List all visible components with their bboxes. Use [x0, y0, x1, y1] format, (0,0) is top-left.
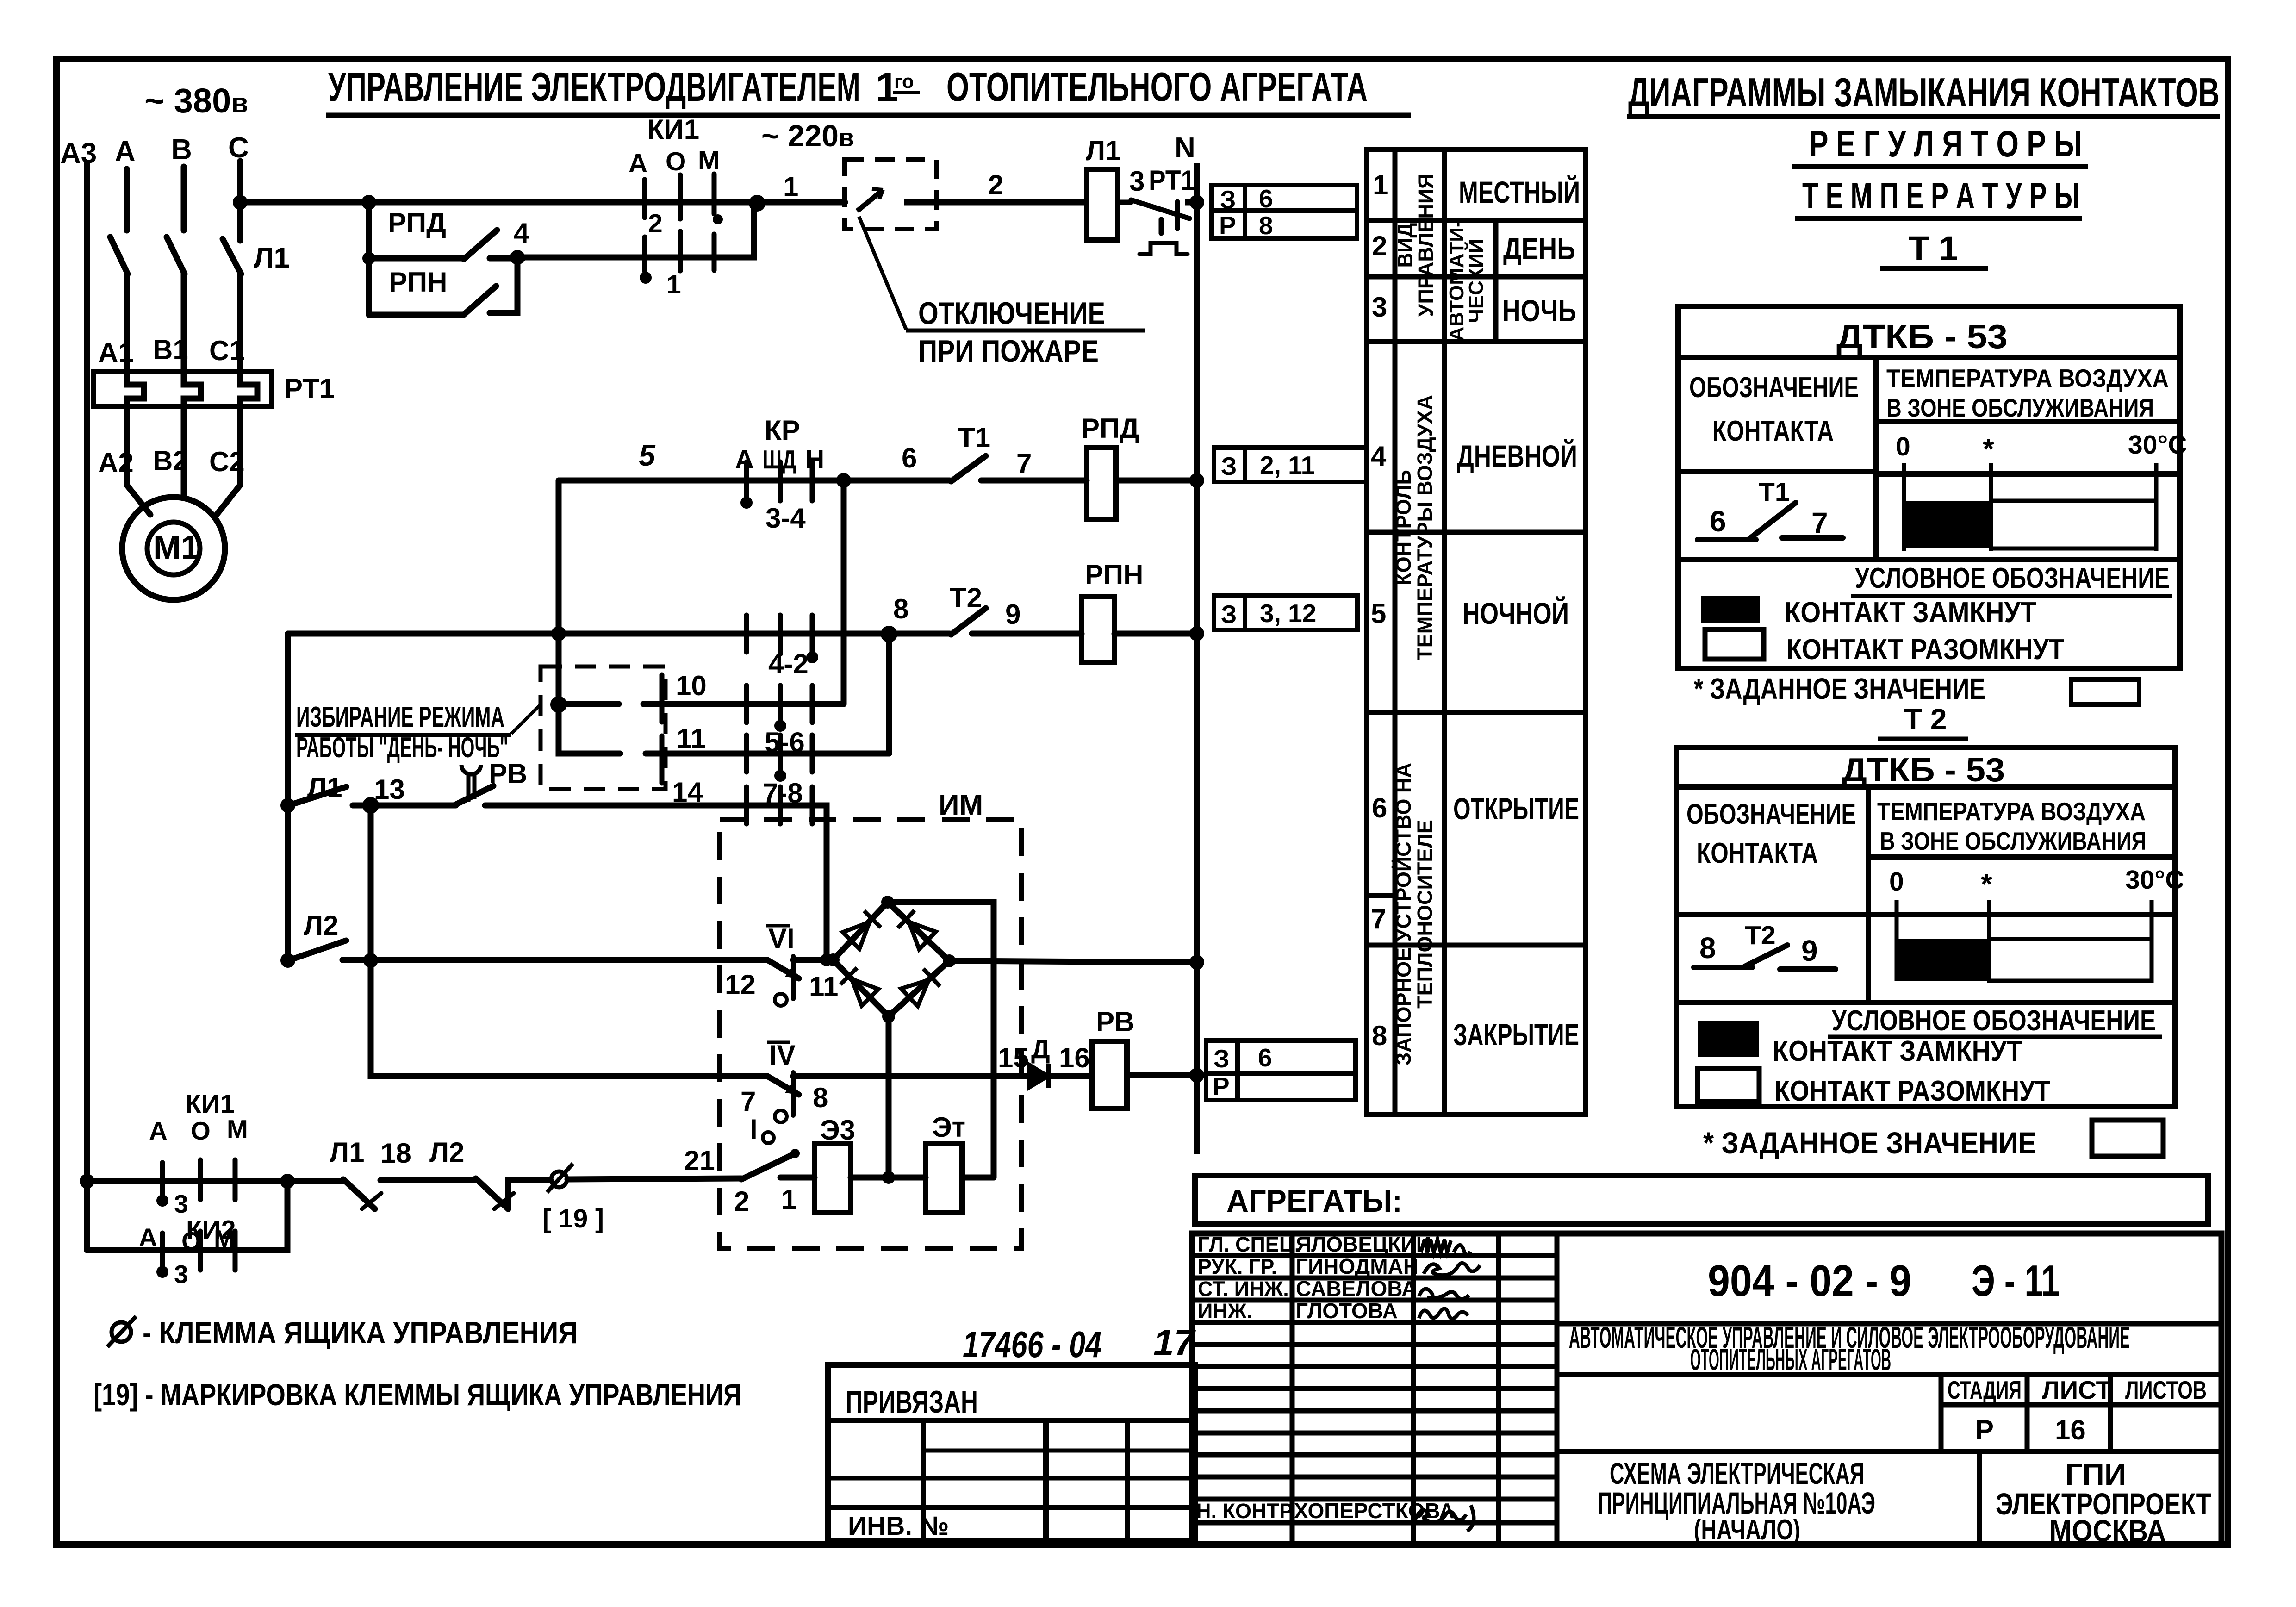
- svg-text:IV: IV: [769, 1040, 796, 1071]
- svg-text:КИ1: КИ1: [647, 114, 699, 145]
- svg-text:12: 12: [725, 969, 756, 1000]
- svg-text:А3: А3: [60, 137, 97, 169]
- svg-text:15: 15: [998, 1042, 1029, 1073]
- svg-text:2: 2: [734, 1186, 749, 1217]
- wire 13: [353, 803, 456, 809]
- bridge arm bottom-left: [833, 960, 889, 1016]
- marker dot 4-2: [806, 651, 818, 663]
- marker dot 10 row: [774, 720, 786, 732]
- wire: РПД to node 4: [490, 255, 523, 262]
- svg-text:Т1: Т1: [1759, 477, 1790, 507]
- svg-text:ИЗБИРАНИЕ РЕЖИМА: ИЗБИРАНИЕ РЕЖИМА: [296, 701, 504, 733]
- svg-text:17466 - 04: 17466 - 04: [963, 1324, 1101, 1365]
- svg-text:8: 8: [1699, 931, 1716, 965]
- svg-text:СТ. ИНЖ.: СТ. ИНЖ.: [1198, 1277, 1289, 1301]
- node bridge bottom: [882, 1010, 895, 1023]
- svg-text:VI: VI: [768, 923, 795, 954]
- contact Л2 (NO aux): [292, 941, 346, 959]
- svg-text:10: 10: [676, 670, 707, 701]
- svg-text:ДИАГРАММЫ ЗАМЫКАНИЯ КОНТАКТОВ: ДИАГРАММЫ ЗАМЫКАНИЯ КОНТАКТОВ: [1628, 69, 2220, 115]
- contact РПД (NO): [464, 230, 497, 259]
- svg-text:21: 21: [684, 1145, 715, 1176]
- contact Т2 (NO): [951, 608, 986, 635]
- svg-text:1: 1: [1373, 169, 1388, 200]
- svg-text:9: 9: [1801, 934, 1818, 967]
- svg-text:3: 3: [174, 1190, 188, 1218]
- phase C line upper: [237, 161, 243, 241]
- legend open box: [1705, 629, 1764, 659]
- svg-text:ДЕНЬ: ДЕНЬ: [1503, 231, 1575, 266]
- КР poles at row 14: [747, 787, 812, 824]
- node branch РПН: [362, 252, 375, 265]
- coil РПД: [1087, 448, 1116, 519]
- svg-text:7-8: 7-8: [763, 778, 803, 809]
- title: УПРАВЛЕНИЕ ЭЛЕКТРОДВИГАТЕЛЕМ 1го ОТОПИТЕЛЬНОГО АГРЕГАТА: [326, 64, 1411, 115]
- svg-text:ТЕМПЕРАТУРЫ ВОЗДУХА: ТЕМПЕРАТУРЫ ВОЗДУХА: [1413, 395, 1437, 660]
- phase A line to РТ1: [124, 273, 130, 376]
- svg-text:(НАЧАЛО): (НАЧАЛО): [1694, 1514, 1800, 1546]
- svg-text:30°С: 30°С: [2125, 865, 2184, 895]
- riser from T2 node: [886, 634, 892, 754]
- svg-text:СТАДИЯ: СТАДИЯ: [1948, 1376, 2022, 1404]
- node Т2: [881, 626, 897, 642]
- svg-text:ГЛ. СПЕЦ.: ГЛ. СПЕЦ.: [1198, 1233, 1300, 1256]
- svg-text:М: М: [698, 146, 720, 175]
- svg-text:ОТОПИТЕЛЬНЫХ АГРЕГАТОВ: ОТОПИТЕЛЬНЫХ АГРЕГАТОВ: [1690, 1342, 1891, 1377]
- svg-text:17: 17: [1153, 1322, 1196, 1363]
- coil РПН: [1082, 597, 1114, 662]
- bar closed (filled): [1904, 501, 1991, 548]
- wire: IV fixed to diode Д: [793, 1073, 1028, 1079]
- coil Э3: [815, 1144, 851, 1213]
- svg-text:Л1: Л1: [307, 772, 342, 803]
- РТ1 heater element phase B: [184, 372, 201, 406]
- VI pivot circle: [775, 994, 787, 1006]
- svg-text:ОТКЛЮЧЕНИЕ: ОТКЛЮЧЕНИЕ: [918, 296, 1105, 331]
- svg-text:ОБОЗНАЧЕНИЕ: ОБОЗНАЧЕНИЕ: [1689, 372, 1859, 404]
- ИМ dashed box: [720, 819, 1021, 1249]
- svg-text:1: 1: [666, 270, 681, 299]
- svg-text:В ЗОНЕ ОБСЛУЖИВАНИЯ: В ЗОНЕ ОБСЛУЖИВАНИЯ: [1880, 827, 2147, 855]
- contact РПН (NO): [464, 286, 496, 315]
- svg-text:ГИНОДМАН: ГИНОДМАН: [1296, 1254, 1419, 1278]
- contactor Л1 main contact phase A: [110, 237, 128, 274]
- svg-text:А: А: [115, 136, 136, 168]
- wire: Эт to right drop: [962, 1175, 994, 1181]
- phase B line to motor: [181, 406, 187, 498]
- wire: Э3 to Эт: [851, 1175, 926, 1181]
- svg-text:РПД: РПД: [1081, 413, 1139, 444]
- svg-text:САВЕЛОВА: САВЕЛОВА: [1296, 1277, 1417, 1301]
- РВ time-delay symbol: [461, 765, 481, 802]
- svg-text:В1: В1: [153, 334, 188, 365]
- terminal symbol in note: [112, 1322, 131, 1342]
- svg-text:ДТКБ - 53: ДТКБ - 53: [1842, 752, 2005, 789]
- node bridge top: [881, 896, 894, 909]
- svg-text:2, 11: 2, 11: [1260, 451, 1315, 480]
- svg-text:Д: Д: [1031, 1034, 1050, 1064]
- marker dot КИ1: [156, 1195, 168, 1207]
- svg-text:КОНТРОЛЬ: КОНТРОЛЬ: [1392, 470, 1415, 585]
- svg-text:Р Е Г У Л Я Т О Р Ы: Р Е Г У Л Я Т О Р Ы: [1809, 123, 2082, 164]
- legend open box: [1698, 1069, 1759, 1102]
- wire: phase C tap to КИ1: [240, 199, 845, 206]
- svg-text:С1: С1: [209, 335, 245, 366]
- wire: Л2 to VI contact: [342, 957, 767, 963]
- svg-text:6: 6: [1710, 505, 1726, 538]
- svg-text:Л1: Л1: [330, 1137, 364, 1168]
- svg-text:Э - 11: Э - 11: [1972, 1256, 2060, 1306]
- callout leader to selector box: [511, 704, 541, 734]
- svg-text:Л2: Л2: [429, 1137, 464, 1168]
- svg-text:Р: Р: [1975, 1414, 1994, 1445]
- legend filled box: [1701, 596, 1760, 623]
- contact Т1 (NO): [951, 456, 986, 481]
- node КИ1 out: [749, 195, 765, 212]
- diode D3 (bottom-left arm): [840, 968, 878, 1006]
- node 13: [362, 797, 379, 814]
- svg-text:3: 3: [1372, 292, 1387, 323]
- svg-text:СХЕМА ЭЛЕКТРИЧЕСКАЯ: СХЕМА ЭЛЕКТРИЧЕСКАЯ: [1610, 1456, 1864, 1490]
- motor M1: [122, 497, 225, 600]
- coil Эт: [926, 1144, 962, 1213]
- svg-text:Р: Р: [1213, 1072, 1230, 1101]
- svg-text:3: 3: [1129, 166, 1145, 197]
- node РТ1-N: [1189, 195, 1204, 210]
- svg-text:С: С: [228, 132, 249, 164]
- svg-text:2: 2: [1372, 230, 1387, 262]
- diode D2 (top-right arm): [898, 910, 936, 949]
- node bridge AC left: [820, 953, 833, 966]
- svg-text:А: А: [139, 1223, 157, 1252]
- svg-text:ПРИ ПОЖАРЕ: ПРИ ПОЖАРЕ: [918, 334, 1099, 369]
- wire: node 4 to КИ1 lower row: [517, 204, 754, 257]
- wire: РПН branch: [369, 312, 463, 318]
- contact VI (reversing, NO with pivot): [767, 960, 799, 978]
- svg-text:УПРАВЛЕНИЯ: УПРАВЛЕНИЯ: [1414, 174, 1437, 317]
- riser node13 to IV row: [371, 805, 767, 1076]
- svg-text:ТЕПЛОНОСИТЕЛЕ: ТЕПЛОНОСИТЕЛЕ: [1413, 820, 1437, 1009]
- svg-text:РАБОТЫ "ДЕНЬ- НОЧЬ": РАБОТЫ "ДЕНЬ- НОЧЬ": [296, 732, 508, 764]
- wire: to Л1 nc contact: [287, 1178, 343, 1184]
- bar closed (filled): [1897, 939, 1989, 981]
- svg-text:*: *: [1981, 867, 1992, 901]
- wire: bridge right AC to N: [949, 961, 1197, 962]
- svg-text:ОБОЗНАЧЕНИЕ: ОБОЗНАЧЕНИЕ: [1686, 798, 1856, 830]
- svg-text:3-4: 3-4: [765, 503, 806, 534]
- wire: VI fixed to bridge: [793, 957, 833, 963]
- marker dot КИ2: [156, 1266, 168, 1278]
- svg-text:ЛИСТ: ЛИСТ: [2042, 1376, 2111, 1404]
- contact Л1 (NC interlock): [343, 1179, 375, 1209]
- svg-text:РТ1: РТ1: [284, 373, 335, 404]
- node 4: [510, 250, 525, 265]
- bridge arm top-right: [888, 902, 949, 961]
- svg-text:5-6: 5-6: [765, 727, 805, 758]
- node Л1 aux: [280, 798, 295, 813]
- svg-text:ЧЕСКИЙ: ЧЕСКИЙ: [1464, 239, 1487, 323]
- svg-text:М1: М1: [153, 529, 199, 566]
- svg-text:4-2: 4-2: [768, 648, 809, 679]
- svg-text:Т 2: Т 2: [1904, 703, 1947, 736]
- svg-text:НОЧЬ: НОЧЬ: [1502, 293, 1576, 328]
- wire: riser x1207 down: [556, 480, 562, 704]
- svg-text:УПРАВЛЕНИЕ ЭЛЕКТРОДВИГАТЕЛЕМ: УПРАВЛЕНИЕ ЭЛЕКТРОДВИГАТЕЛЕМ: [328, 64, 860, 110]
- svg-text:0: 0: [1889, 867, 1904, 897]
- svg-text:5: 5: [1371, 598, 1386, 629]
- wire: terminal to I contact: [567, 1178, 741, 1179]
- svg-text:ИНЖ.: ИНЖ.: [1198, 1299, 1252, 1323]
- marker dot 3-4: [740, 497, 753, 509]
- svg-text:ИНВ. №: ИНВ. №: [848, 1511, 949, 1541]
- svg-text:ТЕМПЕРАТУРА ВОЗДУХА: ТЕМПЕРАТУРА ВОЗДУХА: [1877, 797, 2146, 826]
- heading: ДИАГРАММЫ ЗАМЫКАНИЯ КОНТАКТОВ: [1627, 69, 2220, 117]
- svg-text:1: 1: [783, 171, 798, 202]
- svg-text:16: 16: [2055, 1414, 2086, 1445]
- svg-text:Т 1: Т 1: [1909, 229, 1958, 268]
- bar open (outline): [1989, 939, 2152, 981]
- svg-text:4: 4: [514, 218, 529, 249]
- svg-text:Т2: Т2: [950, 582, 982, 613]
- svg-text:КР: КР: [765, 415, 800, 446]
- wire: РПД/РПН branch drop: [366, 202, 372, 315]
- svg-text:РПН: РПН: [389, 267, 447, 298]
- svg-text:З: З: [1220, 185, 1236, 214]
- fire disconnect dashed box: [845, 160, 936, 229]
- contactor Л1 main contact phase B: [167, 237, 185, 274]
- svg-text:30°С: 30°С: [2128, 430, 2187, 460]
- svg-text:Э3: Э3: [820, 1115, 855, 1146]
- bridge arm top-left: [833, 902, 888, 960]
- svg-text:Н: Н: [805, 445, 824, 474]
- svg-text:УСЛОВНОЕ ОБОЗНАЧЕНИЕ: УСЛОВНОЕ ОБОЗНАЧЕНИЕ: [1832, 1005, 2156, 1037]
- contactor Л1 main contact phase C: [223, 239, 241, 274]
- wire: T1 node to contact: [844, 478, 950, 484]
- arrow dot I blade: [790, 1149, 800, 1158]
- signatures: [1415, 1240, 1480, 1531]
- wire: I fixed to Э3: [780, 1175, 815, 1181]
- svg-text:ДНЕВНОЙ: ДНЕВНОЙ: [1457, 438, 1577, 473]
- wire row 10: [559, 701, 844, 707]
- svg-text:О: О: [191, 1116, 211, 1145]
- svg-text:9: 9: [1005, 599, 1020, 630]
- wire: РПН riser to node 4: [490, 258, 517, 313]
- svg-text:5: 5: [639, 439, 656, 472]
- wire: left drop to Л1 row: [285, 634, 291, 805]
- svg-text:УСЛОВНОЕ ОБОЗНАЧЕНИЕ: УСЛОВНОЕ ОБОЗНАЧЕНИЕ: [1855, 562, 2170, 594]
- svg-text:11: 11: [809, 971, 838, 1002]
- svg-text:З: З: [1221, 600, 1237, 629]
- svg-text:КОНТАКТА: КОНТАКТА: [1697, 837, 1818, 869]
- contact table З6/Р8: [1212, 185, 1357, 238]
- svg-text:[ 19 ]: [ 19 ]: [542, 1204, 604, 1233]
- svg-text:В ЗОНЕ ОБСЛУЖИВАНИЯ: В ЗОНЕ ОБСЛУЖИВАНИЯ: [1886, 393, 2154, 422]
- svg-text:РПН: РПН: [1085, 559, 1143, 590]
- svg-text:КОНТАКТ РАЗОМКНУТ: КОНТАКТ РАЗОМКНУТ: [1786, 634, 2064, 666]
- phase C line to РТ1: [237, 273, 243, 376]
- contact table З6/Р (РВ): [1206, 1040, 1356, 1100]
- КИ1/КИ2 connecting drop: [87, 1181, 287, 1250]
- svg-text:~ 220в: ~ 220в: [761, 118, 854, 153]
- svg-text:КОНТАКТА: КОНТАКТА: [1712, 415, 1834, 447]
- wire 18: [380, 1177, 476, 1183]
- contact I (selector): [741, 1153, 795, 1179]
- svg-text:2: 2: [988, 169, 1003, 200]
- svg-text:НОЧНОЙ: НОЧНОЙ: [1462, 596, 1569, 630]
- svg-text:КОНТАКТ ЗАМКНУТ: КОНТАКТ ЗАМКНУТ: [1773, 1035, 2022, 1067]
- svg-text:А: А: [149, 1116, 168, 1145]
- node C tap: [233, 195, 248, 210]
- scale ticks: [1897, 900, 2152, 981]
- svg-text:1: 1: [781, 1184, 796, 1215]
- svg-text:N: N: [1175, 132, 1195, 164]
- svg-text:4: 4: [1371, 441, 1387, 472]
- contact Л1 (NO aux): [292, 787, 346, 804]
- svg-text:Л2: Л2: [304, 910, 338, 941]
- terminal clip symbol: [551, 1171, 567, 1187]
- svg-text:ХОПЕРСТКОВА: ХОПЕРСТКОВА: [1294, 1499, 1455, 1523]
- node riser T2 crossing: [551, 626, 566, 641]
- callout leader (отключение при пожаре): [859, 217, 906, 330]
- svg-text:ЗАКРЫТИЕ: ЗАКРЫТИЕ: [1453, 1017, 1579, 1052]
- svg-text:В2: В2: [153, 445, 188, 476]
- N bus: [1194, 163, 1200, 1154]
- svg-text:М: М: [227, 1115, 248, 1143]
- svg-text:АГРЕГАТЫ:: АГРЕГАТЫ:: [1226, 1183, 1402, 1219]
- wire 5 riser: [559, 478, 844, 484]
- svg-text:ГЛОТОВА: ГЛОТОВА: [1296, 1299, 1398, 1323]
- svg-text:Р: Р: [1219, 211, 1236, 240]
- phase A line to motor: [127, 406, 150, 515]
- svg-text:Л1: Л1: [254, 242, 290, 274]
- svg-text:РВ: РВ: [1096, 1006, 1134, 1037]
- svg-text:В: В: [171, 134, 192, 166]
- svg-text:ЛИСТОВ: ЛИСТОВ: [2125, 1376, 2207, 1404]
- arrow head VI blade: [785, 965, 799, 978]
- bus A3 (left vertical supply bus): [84, 163, 90, 1250]
- svg-text:ЗАПОРНОЕ УСТРОЙСТВО НА: ЗАПОРНОЕ УСТРОЙСТВО НА: [1392, 763, 1415, 1065]
- node VI-N: [1189, 955, 1204, 970]
- diode D1 (top-left arm): [843, 911, 881, 949]
- svg-text:ОТКРЫТИЕ: ОТКРЫТИЕ: [1453, 791, 1579, 826]
- svg-text:16: 16: [1059, 1042, 1090, 1073]
- svg-text:О: О: [181, 1227, 201, 1255]
- svg-text:Т Е М П Е Р А Т У Р Ы: Т Е М П Е Р А Т У Р Ы: [1802, 175, 2080, 216]
- svg-text:6: 6: [1372, 792, 1387, 823]
- svg-text:2: 2: [648, 209, 663, 238]
- svg-text:ДТКБ - 53: ДТКБ - 53: [1836, 318, 2008, 355]
- node Э3-Эт: [882, 1171, 895, 1184]
- svg-text:7: 7: [1811, 506, 1828, 540]
- svg-text:7: 7: [1016, 448, 1032, 479]
- svg-text:6: 6: [1258, 1043, 1272, 1072]
- wire to terminal: [508, 1180, 551, 1209]
- bar open (outline): [1991, 501, 2156, 548]
- phase C line to motor: [217, 406, 240, 515]
- svg-text:РУК. ГР.: РУК. ГР.: [1198, 1255, 1277, 1278]
- svg-text:8: 8: [893, 593, 908, 624]
- node РПН-N: [1189, 626, 1204, 641]
- svg-text:ГПИ: ГПИ: [2065, 1457, 2126, 1491]
- svg-text:ТЕМПЕРАТУРА ВОЗДУХА: ТЕМПЕРАТУРА ВОЗДУХА: [1886, 364, 2169, 392]
- wire: РПД branch: [369, 255, 463, 262]
- svg-text:ПРИВЯЗАН: ПРИВЯЗАН: [846, 1384, 978, 1420]
- legend filled box: [1698, 1021, 1759, 1057]
- wire to N: [1185, 199, 1197, 206]
- svg-text:0: 0: [1896, 432, 1910, 461]
- coil Л1: [1087, 169, 1118, 240]
- РТ1 heater element phase C: [240, 372, 257, 406]
- svg-text:*: *: [1983, 432, 1994, 466]
- wire 14: [485, 805, 827, 960]
- svg-text:~ 380в: ~ 380в: [144, 81, 248, 120]
- svg-text:КОНТАКТ РАЗОМКНУТ: КОНТАКТ РАЗОМКНУТ: [1774, 1075, 2050, 1107]
- svg-text:го: го: [894, 70, 914, 92]
- КР poles at Т2 row: [747, 615, 812, 654]
- node IV riser: [363, 953, 378, 968]
- svg-text:3, 12: 3, 12: [1260, 599, 1316, 628]
- svg-text:РТ1: РТ1: [1149, 165, 1195, 196]
- svg-text:6: 6: [1259, 184, 1273, 213]
- svg-text:А1: А1: [98, 337, 134, 368]
- svg-text:* ЗАДАННОЕ ЗНАЧЕНИЕ: * ЗАДАННОЕ ЗНАЧЕНИЕ: [1703, 1126, 2036, 1160]
- arrow head IV blade: [785, 1082, 799, 1095]
- node КИ1 row corner: [280, 1174, 295, 1189]
- svg-text:Л1: Л1: [1086, 135, 1120, 166]
- svg-text:- КЛЕММА ЯЩИКА УПРАВЛЕНИЯ: - КЛЕММА ЯЩИКА УПРАВЛЕНИЯ: [143, 1315, 578, 1350]
- IV pivot circle: [775, 1110, 787, 1122]
- svg-text:КОНТАКТ ЗАМКНУТ: КОНТАКТ ЗАМКНУТ: [1785, 597, 2036, 629]
- svg-text:З: З: [1213, 1044, 1229, 1073]
- node РПД-N: [1189, 473, 1204, 488]
- svg-text:13: 13: [374, 774, 405, 805]
- svg-text:7: 7: [1371, 903, 1386, 934]
- wire: left branch to Т2 contact: [288, 631, 950, 637]
- РТ1 heater element phase A: [127, 372, 144, 406]
- selector dashed box: [541, 666, 666, 789]
- svg-text:А2: А2: [98, 447, 134, 478]
- marker dot 5-6: [774, 770, 786, 782]
- wire: РВ-14 drop joins bridge AC node: [824, 957, 830, 963]
- КР poles rows 10/11: [662, 675, 812, 783]
- contact РВ (time delay NO): [454, 786, 493, 805]
- КР poles at Т1 row: [747, 462, 812, 501]
- svg-text:Т2: Т2: [1745, 921, 1776, 950]
- svg-text:М: М: [214, 1225, 235, 1253]
- svg-text:* ЗАДАННОЕ ЗНАЧЕНИЕ: * ЗАДАННОЕ ЗНАЧЕНИЕ: [1694, 672, 1985, 705]
- wire: РВ coil to N: [1127, 1072, 1197, 1078]
- bridge arm bottom-right: [889, 961, 949, 1016]
- svg-text:8: 8: [1372, 1020, 1387, 1051]
- svg-text:Т1: Т1: [958, 422, 990, 453]
- phase B line upper: [181, 167, 187, 230]
- coil РВ: [1092, 1041, 1127, 1109]
- svg-text:МЕСТНЫЙ: МЕСТНЫЙ: [1459, 174, 1580, 209]
- contact table З 3,12: [1214, 596, 1357, 630]
- node bridge right: [943, 954, 956, 967]
- svg-text:ИМ: ИМ: [939, 789, 983, 821]
- svg-text:14: 14: [672, 777, 703, 808]
- svg-text:МОСКВА: МОСКВА: [2049, 1514, 2166, 1548]
- svg-text:I: I: [750, 1114, 758, 1145]
- svg-text:8: 8: [1259, 211, 1273, 240]
- wire: left edge drop: [285, 805, 291, 960]
- contact РТ1 (NC thermal): [1118, 200, 1189, 254]
- node РВ-N: [1189, 1068, 1204, 1083]
- svg-text:РПД: РПД: [388, 207, 446, 238]
- contact table З 2,11: [1214, 448, 1367, 482]
- diode D4 (bottom-right arm): [901, 969, 940, 1006]
